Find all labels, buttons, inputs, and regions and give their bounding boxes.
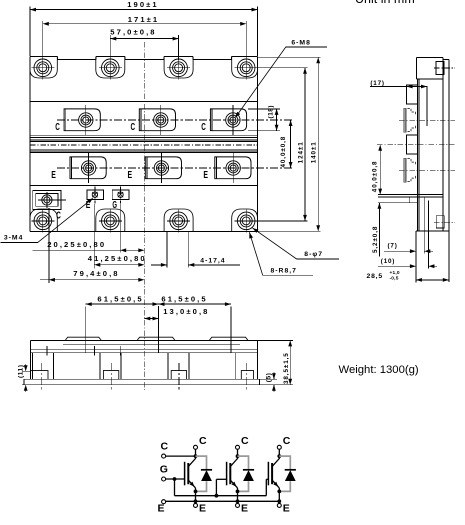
side view body [416,58,449,282]
mounting lug tabs bottom [30,209,258,231]
terminal E3 bottom [277,503,290,515]
svg-text:C: C [161,441,169,453]
terminal E main [162,500,166,504]
dimension 79.4 [40,208,144,283]
svg-text:E: E [51,170,56,181]
front view feet [31,363,254,390]
svg-text:61,5±0,5: 61,5±0,5 [97,295,143,304]
front view body [31,340,258,379]
leader 8-R8.7 [249,232,313,275]
svg-text:40,0±0,8: 40,0±0,8 [280,136,287,168]
svg-text:C: C [56,211,61,222]
svg-text:8-R8,7: 8-R8,7 [271,267,297,274]
side view top lug [434,61,455,74]
dimension 5.2 side [372,203,381,257]
center strip lines [30,136,258,153]
terminal G [162,477,166,481]
transistor Q1 IGBT [185,459,196,488]
wire emitter Q2 [236,488,240,504]
svg-text:4-17,4: 4-17,4 [200,257,225,264]
transistor Q3 IGBT [268,459,279,488]
leader 8-phi7 [253,228,340,259]
front view baseplate [24,379,260,385]
svg-text:-0,5: -0,5 [390,275,399,281]
wire C to Q1 collector [166,455,196,457]
wire collector Q3 [277,449,281,459]
svg-text:(11): (11) [18,364,25,378]
svg-text:(5): (5) [266,372,273,382]
svg-text:C: C [55,122,60,133]
wire emitter Q1 [194,488,198,504]
terminal E1 bottom [194,503,207,515]
dimension 124 [257,68,308,221]
svg-text:3-M4: 3-M4 [4,234,24,241]
aux emitter sense terminal E [87,187,104,204]
svg-text:140±1: 140±1 [311,141,318,163]
gate bus wire [175,495,267,497]
wire collector Q1 [194,449,198,459]
front view aux screw marks [41,346,126,356]
dimension 140 [258,57,321,231]
svg-text:E: E [241,503,248,515]
svg-text:(7): (7) [388,243,398,250]
dimension 57.0 [110,28,178,60]
svg-text:171±1: 171±1 [128,15,160,24]
wire G to Q1 gate [166,478,185,480]
svg-text:+1,0: +1,0 [390,270,400,276]
E row dashed centerline [57,167,294,169]
emitter bus wire [166,500,280,502]
side view centerline [377,144,455,146]
wire gate Q2 [215,479,227,497]
svg-text:13,0±0,8: 13,0±0,8 [163,307,209,316]
svg-text:(10): (10) [381,258,395,265]
svg-text:E: E [128,170,133,181]
mounting lug tabs top [30,57,258,79]
svg-text:E: E [283,503,290,515]
main top view outline [30,57,258,232]
side view bottom lug [434,216,455,228]
dimension (18) box height [248,105,280,131]
svg-text:C: C [199,435,207,447]
svg-text:E: E [158,503,165,515]
emitter terminal boxes E row with M8 holes [70,153,251,183]
svg-text:Weight: 1300(g): Weight: 1300(g) [339,364,419,376]
wire gate bus down [174,479,176,496]
terminal deck edge lines [30,101,258,103]
dimension (10) [378,258,437,268]
svg-text:124±1: 124±1 [298,141,305,163]
wire collector Q2 [236,449,240,459]
dimension 61.5 right [159,295,231,306]
collector terminal boxes C row with M8 holes [64,105,247,135]
svg-text:C: C [241,435,249,447]
dimension (11) [18,364,31,392]
dimension 13.0 [144,306,209,320]
dimension 20.25 bottom [33,204,145,253]
terminal C3 top [277,435,291,450]
front view terminal centerlines [86,307,231,353]
transistor Q2 IGBT [227,459,238,488]
dimension 190 top [30,0,258,56]
svg-text:40,0±0,8: 40,0±0,8 [371,161,378,193]
svg-text:E: E [203,170,208,181]
C row dashed centerline [57,119,294,121]
aux gate terminal G [112,187,129,204]
diode D1 freewheel [196,456,213,491]
dimension 61.5 left [86,295,159,306]
lug holes 8-phi7 circles [31,56,257,232]
diode D3 freewheel [279,456,296,491]
front view terminal bumps [65,337,248,340]
svg-text:C: C [283,435,291,447]
svg-text:20,25±0,80: 20,25±0,80 [47,240,106,249]
dimension 171 [43,15,246,60]
leader 6-M8 [235,40,327,118]
svg-text:5,2±0,8: 5,2±0,8 [372,226,379,253]
svg-text:190±1: 190±1 [127,0,159,9]
dimension 40.0 right [280,120,293,168]
wire gate Q3 [266,479,268,495]
dimension (17) [370,80,427,126]
leader 3-M4 [1,198,94,243]
terminal C main [162,454,166,458]
svg-text:79,4±0,8: 79,4±0,8 [73,269,119,278]
dimension 38.5 [257,340,293,384]
svg-text:C: C [201,122,206,133]
svg-text:Unit in mm: Unit in mm [355,0,415,6]
node gate1 junction [173,477,177,481]
dimension 28.5 thickness [367,231,449,282]
vertical centerline of module [143,42,145,390]
terminal C1 top [194,435,208,450]
dimension 4-17.4 slots [151,232,240,268]
horizontal centerline of module [30,144,258,146]
svg-text:57,0±0,8: 57,0±0,8 [110,28,156,37]
terminal E2 bottom [236,503,249,515]
aux collector terminal C [33,190,66,209]
terminal C2 top [236,435,250,450]
wire emitter Q3 [277,488,281,504]
front view foot tabs [33,353,236,380]
dimension (7) [384,243,433,253]
svg-text:61,5±0,5: 61,5±0,5 [161,295,207,304]
svg-text:G: G [112,200,117,211]
side view E terminal boss [399,135,455,182]
dimension (5) [259,372,277,391]
svg-text:E: E [199,503,206,515]
svg-text:8-φ7: 8-φ7 [304,251,323,258]
svg-text:G: G [160,463,168,475]
svg-text:6-M8: 6-M8 [291,40,311,47]
side view aux terminal boss [378,195,443,269]
svg-text:41,25±0,80: 41,25±0,80 [88,254,147,263]
diode D2 freewheel [238,456,255,491]
svg-text:C: C [131,122,136,133]
svg-text:28,5: 28,5 [367,273,383,280]
dimension 40.0 side [371,145,382,195]
dimension 41.25 [88,204,147,269]
svg-text:38,5±1,5: 38,5±1,5 [283,352,290,384]
svg-text:(18): (18) [268,105,275,119]
side view C terminal boss [399,85,455,132]
